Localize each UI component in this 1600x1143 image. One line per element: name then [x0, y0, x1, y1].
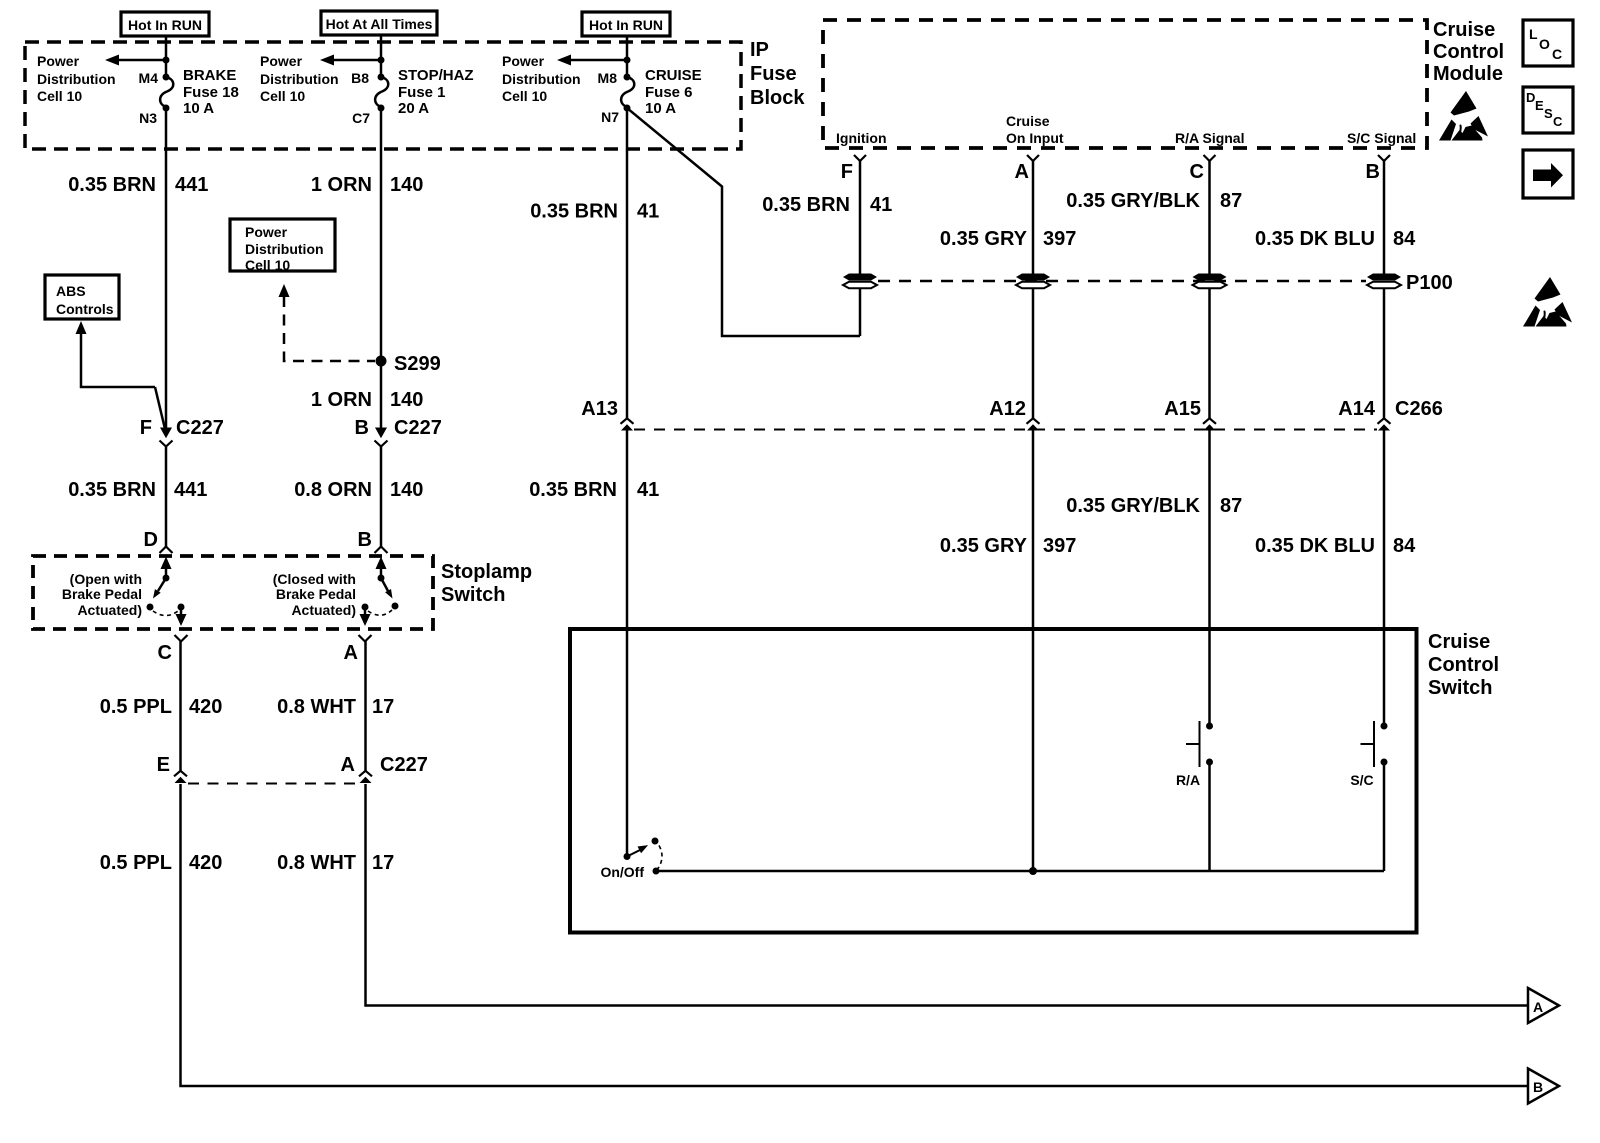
node at cruise fuse feed	[624, 57, 631, 64]
svg-text:IP: IP	[750, 39, 769, 61]
svg-text:84: 84	[1393, 535, 1416, 557]
svg-text:M8: M8	[598, 70, 618, 86]
wire 0.35 GRY/BLK below P100	[1208, 288, 1211, 418]
svg-text:A: A	[341, 754, 355, 776]
svg-text:140: 140	[390, 174, 423, 196]
svg-text:87: 87	[1220, 190, 1242, 212]
svg-text:F: F	[841, 161, 853, 183]
svg-text:Power: Power	[502, 53, 545, 69]
svg-text:BRAKE: BRAKE	[183, 67, 236, 84]
ESD symbol (standalone)	[1523, 277, 1572, 327]
svg-text:Distribution: Distribution	[260, 71, 339, 87]
svg-text:Hot At All Times: Hot At All Times	[326, 16, 433, 32]
svg-text:CRUISE: CRUISE	[645, 67, 702, 84]
svg-text:0.35 BRN: 0.35 BRN	[68, 174, 156, 196]
in-line connector P100 (S/C)	[1367, 274, 1401, 289]
dashed line P100	[878, 280, 1366, 283]
junction node	[1029, 867, 1037, 875]
svg-text:420: 420	[189, 852, 222, 874]
svg-text:Cruise: Cruise	[1006, 113, 1050, 129]
cruise control module dashed box	[823, 20, 1427, 148]
Power Distribution Cell 10 box (mid)	[230, 219, 335, 271]
svg-text:397: 397	[1043, 535, 1076, 557]
label box "Hot In RUN" (right)	[582, 12, 670, 36]
svg-text:C227: C227	[394, 417, 442, 439]
On/Off switch	[624, 853, 631, 860]
wire branch to ABS Controls	[76, 321, 87, 334]
svg-text:Cell 10: Cell 10	[502, 88, 547, 104]
dashed branch from S299 to Power Distribution	[279, 284, 290, 297]
svg-text:On/Off: On/Off	[600, 864, 644, 880]
svg-text:441: 441	[174, 479, 207, 501]
label box "Hot In RUN" (left)	[121, 12, 209, 36]
svg-text:(Open with: (Open with	[70, 571, 142, 587]
svg-text:Hot In RUN: Hot In RUN	[589, 17, 663, 33]
svg-text:Cell 10: Cell 10	[37, 88, 82, 104]
svg-text:A14: A14	[1338, 398, 1376, 420]
connector C227 pin B	[375, 428, 388, 447]
svg-text:C: C	[1190, 161, 1204, 183]
svg-text:C7: C7	[352, 110, 370, 126]
svg-text:C: C	[1553, 114, 1563, 129]
svg-text:Brake Pedal: Brake Pedal	[62, 586, 142, 602]
svg-text:Cell 10: Cell 10	[245, 257, 290, 273]
IP fuse block dashed box	[25, 42, 741, 149]
svg-text:Cell 10: Cell 10	[260, 88, 305, 104]
svg-text:0.8 WHT: 0.8 WHT	[277, 852, 356, 874]
connector C266 pin A13	[621, 418, 634, 430]
splice S299	[376, 356, 387, 367]
svg-text:87: 87	[1220, 495, 1242, 517]
svg-text:Cruise: Cruise	[1428, 631, 1490, 653]
svg-text:R/A Signal: R/A Signal	[1175, 130, 1245, 146]
wire from Hot At All Times to stop/haz fuse	[380, 34, 383, 75]
svg-text:Power: Power	[245, 224, 288, 240]
output triangle A	[1528, 988, 1559, 1023]
connector C266 pin A14	[1378, 418, 1391, 430]
output triangle B	[1528, 1069, 1559, 1104]
svg-text:C: C	[1552, 46, 1562, 62]
svg-text:Brake Pedal: Brake Pedal	[276, 586, 356, 602]
fuse CRUISE Fuse 6 10A	[621, 77, 634, 107]
svg-text:10 A: 10 A	[645, 100, 676, 117]
svg-text:Ignition: Ignition	[836, 130, 887, 146]
svg-text:Distribution: Distribution	[502, 71, 581, 87]
svg-text:C227: C227	[380, 754, 428, 776]
cruise control switch box	[570, 629, 1417, 933]
svg-text:(Closed with: (Closed with	[273, 571, 356, 587]
connector C227 pin F	[160, 428, 173, 447]
in-line connector P100 (ignition)	[843, 274, 877, 289]
arrow to Power Distribution Cell 10 (left)	[117, 59, 166, 62]
svg-text:C: C	[158, 642, 172, 664]
svg-text:O: O	[1539, 36, 1550, 52]
svg-text:D: D	[1526, 90, 1535, 105]
svg-text:A: A	[1533, 999, 1543, 1015]
fuse STOP/HAZ Fuse 1 20A	[375, 77, 388, 107]
wire 0.35 GRY into cruise control switch	[1032, 430, 1035, 871]
svg-text:A13: A13	[581, 398, 618, 420]
wire 0.35 BRN 41 from N7 down	[626, 108, 629, 418]
S/C pushbutton switch	[1381, 723, 1388, 730]
ABS Controls box	[45, 275, 119, 319]
svg-text:A15: A15	[1164, 398, 1201, 420]
wire 1 ORN 140 from S299 to C227	[380, 361, 383, 430]
svg-text:B: B	[355, 417, 369, 439]
in-line connector P100 (R/A)	[1193, 274, 1227, 289]
svg-text:A: A	[344, 642, 358, 664]
svg-text:N7: N7	[601, 109, 619, 125]
arrow to Power Distribution Cell 10 (right)	[569, 59, 627, 62]
svg-text:F: F	[140, 417, 152, 439]
label box "Hot At All Times"	[321, 11, 437, 35]
svg-text:0.35 BRN: 0.35 BRN	[530, 201, 618, 223]
in-line connector P100 (cruise on)	[1016, 274, 1050, 289]
arrow to Power Distribution Cell 10 (mid)	[332, 59, 381, 62]
fuse BRAKE Fuse 18 10A	[160, 77, 173, 107]
svg-text:C266: C266	[1395, 398, 1443, 420]
node at brake fuse feed	[163, 57, 170, 64]
svg-text:S299: S299	[394, 353, 441, 375]
svg-text:140: 140	[390, 389, 423, 411]
DESC icon box	[1523, 87, 1573, 133]
svg-text:Fuse 6: Fuse 6	[645, 84, 693, 101]
svg-text:B: B	[1533, 1079, 1543, 1095]
wire 0.8 ORN 140 from C227 to stoplamp switch	[380, 447, 383, 547]
svg-text:Distribution: Distribution	[245, 241, 324, 257]
svg-text:41: 41	[637, 479, 659, 501]
arrow icon box	[1523, 150, 1573, 198]
svg-text:0.35 DK BLU: 0.35 DK BLU	[1255, 535, 1375, 557]
wire S/C switch to bus	[1383, 762, 1386, 871]
svg-text:C227: C227	[176, 417, 224, 439]
svg-text:1 ORN: 1 ORN	[311, 389, 372, 411]
svg-text:A: A	[1015, 161, 1029, 183]
svg-text:84: 84	[1393, 228, 1416, 250]
svg-text:Cruise: Cruise	[1433, 19, 1495, 41]
svg-text:41: 41	[637, 201, 659, 223]
connector C227 pin E	[174, 771, 187, 783]
svg-text:Power: Power	[260, 53, 303, 69]
node at stop/haz fuse feed	[378, 57, 385, 64]
svg-text:B: B	[358, 529, 372, 551]
svg-text:Switch: Switch	[441, 584, 505, 606]
svg-text:E: E	[1535, 98, 1544, 113]
svg-text:20 A: 20 A	[398, 100, 429, 117]
svg-text:0.8 ORN: 0.8 ORN	[294, 479, 372, 501]
svg-text:M4: M4	[139, 70, 159, 86]
svg-text:0.35 BRN: 0.35 BRN	[529, 479, 617, 501]
wire from Hot In RUN to brake fuse	[165, 35, 168, 75]
svg-text:17: 17	[372, 852, 394, 874]
svg-text:0.35 BRN: 0.35 BRN	[68, 479, 156, 501]
stoplamp switch dashed box	[33, 556, 433, 629]
left switch contact (open)	[161, 557, 172, 570]
wire 0.35 BRN 441 from C227 to stoplamp switch	[165, 447, 168, 547]
svg-text:R/A: R/A	[1176, 772, 1200, 788]
svg-text:0.35 GRY: 0.35 GRY	[940, 535, 1028, 557]
svg-text:0.35 GRY/BLK: 0.35 GRY/BLK	[1066, 495, 1200, 517]
svg-text:420: 420	[189, 696, 222, 718]
LOC icon box	[1523, 20, 1573, 66]
svg-text:397: 397	[1043, 228, 1076, 250]
wire 0.35 DK BLU into cruise control switch	[1383, 430, 1386, 726]
wire from P100 to ignition junction	[859, 288, 862, 336]
svg-text:Controls: Controls	[56, 301, 114, 317]
left switch output pin C	[175, 635, 188, 642]
svg-text:Fuse: Fuse	[750, 63, 797, 85]
svg-text:0.35 DK BLU: 0.35 DK BLU	[1255, 228, 1375, 250]
svg-text:0.35 BRN: 0.35 BRN	[762, 194, 850, 216]
wire 0.35 GRY below P100	[1032, 288, 1035, 418]
svg-text:Fuse 1: Fuse 1	[398, 84, 446, 101]
connector C266 pin A15	[1203, 418, 1216, 430]
svg-text:STOP/HAZ: STOP/HAZ	[398, 67, 474, 84]
svg-text:1 ORN: 1 ORN	[311, 174, 372, 196]
svg-text:0.35 GRY: 0.35 GRY	[940, 228, 1028, 250]
svg-text:17: 17	[372, 696, 394, 718]
wire PPL to output B	[181, 784, 1529, 1086]
svg-text:L: L	[1529, 26, 1538, 42]
svg-text:S/C Signal: S/C Signal	[1347, 130, 1416, 146]
svg-text:Actuated): Actuated)	[77, 602, 142, 618]
svg-text:Stoplamp: Stoplamp	[441, 561, 532, 583]
svg-text:Switch: Switch	[1428, 677, 1492, 699]
dashed connector line E-A	[188, 783, 358, 785]
svg-text:N3: N3	[139, 110, 157, 126]
connector C266 pin A12	[1027, 418, 1040, 430]
wire from Hot In RUN to cruise fuse	[626, 35, 629, 75]
branch from N7 to ignition wire	[627, 108, 860, 336]
wire 0.8 WHT 17 from pin A	[364, 641, 367, 771]
right switch contact (closed)	[376, 557, 387, 570]
wire 0.35 GRY/BLK into cruise control switch	[1208, 430, 1211, 726]
R/A pushbutton switch	[1206, 723, 1213, 730]
svg-text:Block: Block	[750, 87, 805, 109]
wire 0.35 DK BLU below P100	[1383, 288, 1386, 418]
svg-text:140: 140	[390, 479, 423, 501]
svg-text:S/C: S/C	[1350, 772, 1373, 788]
wire 0.35 BRN 41 below A13	[626, 430, 629, 857]
svg-text:D: D	[144, 529, 158, 551]
svg-text:Distribution: Distribution	[37, 71, 116, 87]
svg-text:0.8 WHT: 0.8 WHT	[277, 696, 356, 718]
svg-text:S: S	[1544, 106, 1553, 121]
right switch output pin A	[359, 635, 372, 642]
svg-text:Control: Control	[1433, 41, 1504, 63]
svg-text:B8: B8	[351, 70, 369, 86]
svg-text:0.5 PPL: 0.5 PPL	[100, 852, 172, 874]
svg-text:Power: Power	[37, 53, 80, 69]
svg-text:E: E	[157, 754, 170, 776]
svg-text:P100: P100	[1406, 272, 1453, 294]
svg-text:ABS: ABS	[56, 283, 86, 299]
svg-text:B: B	[1366, 161, 1380, 183]
wire 1 ORN 140 from C7 to S299	[380, 108, 383, 361]
switch bus wire	[656, 870, 1384, 873]
svg-text:10 A: 10 A	[183, 100, 214, 117]
svg-text:Module: Module	[1433, 63, 1503, 85]
svg-text:41: 41	[870, 194, 892, 216]
svg-text:Control: Control	[1428, 654, 1499, 676]
dashed line C266	[634, 429, 1377, 431]
wire 0.35 BRN 441 from N3 to C227	[165, 108, 168, 430]
connector C227 pin A	[359, 771, 372, 783]
svg-text:A12: A12	[989, 398, 1026, 420]
svg-text:0.35 GRY/BLK: 0.35 GRY/BLK	[1066, 190, 1200, 212]
wire 0.5 PPL 420 from pin C	[179, 641, 182, 771]
svg-text:441: 441	[175, 174, 208, 196]
svg-text:On Input: On Input	[1006, 130, 1064, 146]
svg-text:0.5 PPL: 0.5 PPL	[100, 696, 172, 718]
wire WHT to output A	[366, 784, 1529, 1006]
svg-text:Hot In RUN: Hot In RUN	[128, 17, 202, 33]
wire R/A switch to bus	[1208, 762, 1211, 871]
svg-text:Fuse 18: Fuse 18	[183, 84, 239, 101]
ESD symbol (module)	[1439, 91, 1488, 141]
svg-text:Actuated): Actuated)	[291, 602, 356, 618]
